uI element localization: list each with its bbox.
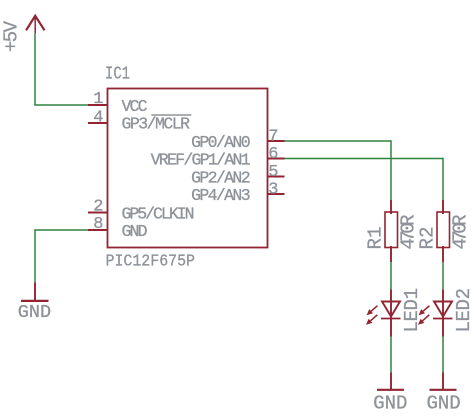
svg-text:GP0/AN0: GP0/AN0 bbox=[191, 133, 251, 152]
svg-text:IC1: IC1 bbox=[105, 64, 130, 85]
svg-text:GND: GND bbox=[122, 222, 148, 241]
svg-text:5: 5 bbox=[268, 163, 278, 182]
svg-text:VCC: VCC bbox=[122, 97, 148, 116]
svg-text:8: 8 bbox=[93, 215, 103, 234]
svg-text:GND: GND bbox=[427, 393, 461, 413]
svg-text:GND: GND bbox=[373, 393, 407, 413]
svg-text:LED1: LED1 bbox=[401, 288, 423, 333]
svg-text:2: 2 bbox=[93, 198, 103, 217]
svg-text:3: 3 bbox=[268, 180, 278, 199]
svg-text:1: 1 bbox=[93, 90, 103, 109]
svg-text:R1: R1 bbox=[365, 227, 387, 250]
svg-text:R2: R2 bbox=[417, 227, 439, 250]
svg-text:GP4/AN3: GP4/AN3 bbox=[191, 186, 251, 205]
svg-text:6: 6 bbox=[268, 145, 278, 164]
svg-text:4: 4 bbox=[93, 108, 103, 127]
svg-text:7: 7 bbox=[268, 127, 278, 146]
svg-text:GP5/CLKIN: GP5/CLKIN bbox=[122, 205, 195, 224]
svg-text:GND: GND bbox=[18, 302, 51, 323]
svg-text:GP2/AN2: GP2/AN2 bbox=[191, 169, 251, 188]
svg-text:VREF/GP1/AN1: VREF/GP1/AN1 bbox=[151, 151, 251, 170]
svg-text:GP3/MCLR: GP3/MCLR bbox=[122, 114, 191, 133]
svg-text:470R: 470R bbox=[449, 215, 471, 250]
svg-text:PIC12F675P: PIC12F675P bbox=[106, 253, 196, 272]
svg-text:+5V: +5V bbox=[1, 20, 23, 52]
svg-text:LED2: LED2 bbox=[453, 288, 474, 333]
